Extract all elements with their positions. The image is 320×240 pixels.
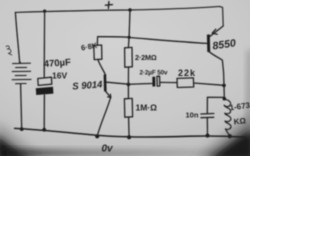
svg-text:2·2MΩ: 2·2MΩ — [135, 53, 157, 62]
capacitor C2 2.2uF 50v left plate (filled) — [152, 77, 155, 87]
wire: emitter to 0v rail — [97, 98, 110, 136]
wire: S9014 emitter with arrow — [105, 91, 110, 98]
transistor Q2 8550 bar — [207, 34, 210, 52]
wire: middle vertical from + rail to 2.2M — [128, 10, 130, 48]
svg-text:0v: 0v — [102, 144, 115, 155]
wire: 2.2uF to 22k — [160, 81, 177, 83]
node: top junction at middle branch — [128, 8, 131, 11]
resistor R4 22k (box) — [177, 78, 194, 88]
wire: 6.8K to S9014 collector — [98, 60, 105, 75]
battery B1 — [12, 62, 31, 83]
wire: base node to 1M — [127, 84, 129, 98]
paper background — [0, 0, 250, 156]
node: junction 6.8K / 8550 base — [128, 36, 131, 39]
bottom-left corner shadow — [0, 122, 44, 160]
inductor L1 coil — [224, 99, 231, 136]
bottom-right corner shadow — [196, 112, 254, 160]
node: battery at rail — [20, 127, 24, 131]
svg-text:22k: 22k — [178, 68, 196, 78]
capacitor C3 10n plates — [201, 113, 214, 116]
svg-text:1M·Ω: 1M·Ω — [136, 103, 158, 113]
capacitor C1 bottom plate (filled) — [36, 87, 54, 95]
capacitor C1 470uF 16V top plate — [38, 77, 52, 85]
capacitor C2 right plate — [157, 76, 160, 86]
wire: 2.2M to base node — [127, 67, 129, 84]
wire: battery bottom to 0v rail — [21, 84, 22, 129]
svg-text:16V: 16V — [52, 71, 67, 81]
node: emitter at rail — [95, 134, 99, 138]
node: 470uF at rail — [42, 128, 46, 132]
bottom edge shadow band — [0, 150, 250, 157]
node: S9014 base node — [127, 83, 131, 87]
plus sign at top — [105, 2, 112, 9]
resistor R2 1MΩ (box) — [124, 98, 132, 117]
node: top junction at 470uF branch — [43, 10, 46, 13]
svg-text:S 9014: S 9014 — [72, 79, 104, 92]
svg-text:KΩ: KΩ — [233, 116, 247, 126]
resistor R3 6.8K (box) — [94, 45, 102, 60]
node: coil at rail — [228, 134, 232, 138]
wire: junction to 6.8K top — [97, 37, 129, 46]
wire: 1M to 0v rail — [128, 117, 131, 137]
wire: 10n to 0v rail — [206, 118, 208, 136]
node: 22k at collector line — [222, 84, 226, 88]
wire: left vertical to battery — [15, 12, 19, 62]
wire: bracket to 10n — [207, 97, 224, 113]
squiggle mark near battery top — [6, 46, 12, 55]
svg-text:470µF: 470µF — [43, 57, 71, 70]
wire: 8550 emitter from + rail with arrow — [210, 26, 223, 36]
wire: 22k to 8550 collector line — [194, 83, 224, 85]
wire: 8550 base to junction — [129, 38, 207, 44]
transistor Q1 S9014 bar — [104, 74, 107, 91]
wire: 470uF bottom lead — [43, 95, 45, 130]
wire: base node to 2.2uF — [128, 83, 152, 86]
wire: top + rail — [15, 6, 223, 26]
wire: 470uF top lead — [43, 11, 45, 77]
wire: 8550 collector down — [209, 52, 224, 99]
node: collector line / tank top — [223, 97, 227, 101]
node: 1M at rail — [127, 135, 131, 139]
svg-text:10n: 10n — [186, 111, 199, 120]
resistor R1 2.2MΩ (box) — [125, 47, 133, 67]
node: 10n at rail — [206, 134, 210, 138]
wire: 0v bottom rail — [15, 128, 246, 137]
svg-text:2·2µF 50v: 2·2µF 50v — [140, 70, 169, 77]
wire: S9014 base lead — [106, 82, 128, 84]
right edge shading — [247, 50, 253, 135]
